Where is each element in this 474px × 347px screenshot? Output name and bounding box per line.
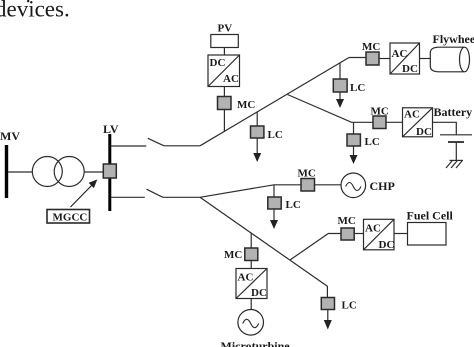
wire feeder1 top horizontal to MC (flywheel) <box>349 57 366 59</box>
wire feeder1 after switch <box>164 145 200 147</box>
controller MC (battery) gray square <box>373 116 386 129</box>
wire CHP branch diagonal <box>200 185 301 198</box>
svg-text:AC: AC <box>223 73 239 85</box>
wire inverter to MC (PV) <box>223 87 225 97</box>
svg-text:DC: DC <box>210 57 226 69</box>
PV panel <box>211 35 239 48</box>
wire MC to AC/DC (battery) <box>386 121 403 123</box>
wire MC to AC/DC (flywheel) <box>379 58 390 60</box>
flywheel cylinder <box>433 32 474 46</box>
controller LC2 gray square <box>333 79 347 92</box>
controller MC (CHP) gray square <box>301 179 315 192</box>
wire MC to AC/DC (fuel cell) <box>354 233 363 235</box>
svg-text:MC: MC <box>362 41 380 53</box>
wire LC tap (CHP branch) <box>273 185 275 197</box>
svg-text:Flywheel: Flywheel <box>433 32 474 46</box>
transformer T1 <box>32 157 62 187</box>
converter AC/DC U4 (microturbine) <box>236 269 267 299</box>
node MV label <box>0 129 20 143</box>
MV bus <box>5 145 8 198</box>
converter AC/DC U2 (flywheel) <box>390 43 420 74</box>
svg-text:MC: MC <box>298 168 316 180</box>
caption remnant tick from line above <box>27 0 29 2</box>
wire MV bus to transformer <box>8 171 33 173</box>
controller MC (fuel cell) gray square <box>341 228 354 240</box>
svg-text:LC: LC <box>342 300 357 312</box>
converter AC/DC U3 (battery) <box>403 108 433 137</box>
svg-text:LC: LC <box>268 129 283 141</box>
svg-text:AC: AC <box>365 223 381 235</box>
node PV label <box>218 23 233 35</box>
svg-text:Fuel Cell: Fuel Cell <box>407 209 454 223</box>
generator CHP <box>341 173 366 198</box>
svg-text:DC: DC <box>416 126 432 138</box>
controller MC (microturbine) gray square <box>245 248 258 261</box>
wire battery branch from feeder1 <box>288 95 374 123</box>
svg-text:AC: AC <box>392 48 408 60</box>
load arrow LC1 <box>256 138 258 154</box>
switch S2 blade (feeder 2) <box>147 189 163 197</box>
wire converter to battery <box>433 122 457 135</box>
svg-text:MC: MC <box>338 215 356 227</box>
wire fuel cell branch <box>290 234 341 260</box>
svg-text:MC: MC <box>371 106 389 118</box>
controller MC (PV) gray square <box>218 97 232 110</box>
svg-text:Microturbine: Microturbine <box>221 339 291 347</box>
svg-text:AC: AC <box>238 272 254 284</box>
load arrow LC5 <box>327 310 329 322</box>
wire MC to AC/DC (microturbine) <box>250 261 252 269</box>
svg-text:devices.: devices. <box>0 0 70 22</box>
svg-text:LV: LV <box>103 122 119 136</box>
controller LC3 gray square <box>347 134 360 146</box>
converter AC/DC U5 (fuel cell) <box>364 219 395 250</box>
wire feeder1 rising diagonal <box>200 58 349 146</box>
wire LC tap feeder1 <box>256 112 258 126</box>
switch S1 blade (feeder 1) <box>148 138 164 146</box>
load arrow LC2 <box>339 92 341 100</box>
controller LC5 gray square <box>321 298 334 310</box>
controller MC (flywheel) gray square <box>366 52 379 65</box>
controller LC4 gray square <box>268 197 281 209</box>
MGCC pointer arrow <box>71 185 93 208</box>
wire LC tap (battery branch) <box>353 122 355 134</box>
wire converter to microturbine <box>250 299 252 310</box>
fuel cell box <box>407 209 454 223</box>
wire feeder1 from LV bus <box>111 145 146 147</box>
svg-text:MC: MC <box>237 99 255 111</box>
wire PV to inverter <box>223 48 225 56</box>
wire MC (PV) to feeder1 <box>223 110 225 132</box>
LV bus <box>108 134 111 211</box>
svg-text:LC: LC <box>350 82 365 94</box>
svg-text:CHP: CHP <box>370 179 395 193</box>
svg-text:Battery: Battery <box>434 105 473 119</box>
wire MC to CHP <box>315 184 342 186</box>
svg-text:PV: PV <box>218 23 233 35</box>
wire converter to fuel cell <box>394 233 408 235</box>
wire LC tap (flywheel branch) <box>339 63 341 79</box>
generator Microturbine <box>238 310 264 336</box>
wire feeder2 after switch <box>163 196 200 198</box>
svg-text:MC: MC <box>224 249 242 261</box>
svg-text:DC: DC <box>379 239 395 251</box>
wire LC tap (bottom) <box>326 286 328 298</box>
wire battery to ground <box>455 142 457 160</box>
wire microturbine tap <box>250 233 252 248</box>
load arrow LC3 <box>353 146 355 156</box>
load arrow LC4 <box>273 209 275 221</box>
ground <box>450 159 464 161</box>
wire transformer to LV switch <box>84 171 103 173</box>
battery B1 <box>434 105 473 119</box>
wire feeder2 from LV bus <box>111 196 145 198</box>
breaker switch on LV (gray square) <box>103 164 116 178</box>
MGCC box <box>47 210 90 224</box>
svg-text:MV: MV <box>0 129 20 143</box>
svg-text:MGCC: MGCC <box>53 212 88 224</box>
node LV label <box>103 122 119 136</box>
controller LC1 gray square <box>251 126 264 138</box>
wire converter to flywheel <box>420 58 431 60</box>
svg-text:AC: AC <box>404 109 420 121</box>
caption text fragment "devices." <box>0 0 70 22</box>
svg-text:LC: LC <box>286 199 301 211</box>
inverter DC/AC U1 (PV) <box>208 55 240 87</box>
svg-text:DC: DC <box>402 63 418 75</box>
svg-text:DC: DC <box>251 287 267 299</box>
wire feeder2 falling diagonal <box>200 197 327 286</box>
svg-text:LC: LC <box>365 136 380 148</box>
